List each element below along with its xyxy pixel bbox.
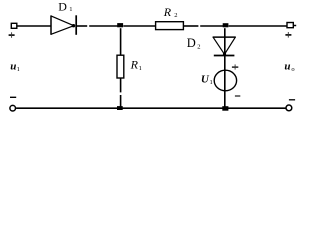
- voltage source U circle: [214, 70, 236, 91]
- minus mark output: [289, 99, 295, 101]
- svg-text:u: u: [10, 61, 16, 73]
- minus mark input: [10, 96, 16, 98]
- svg-text:o: o: [291, 66, 294, 73]
- wire: gap to node B: [200, 25, 226, 27]
- plus mark source: [232, 66, 238, 68]
- diode D1 tip dot: [72, 24, 75, 27]
- wire: gap to node A: [89, 25, 120, 27]
- wire: bottom rail: [16, 107, 286, 109]
- junction node on bottom rail below source: [222, 106, 228, 111]
- svg-text:1: 1: [139, 65, 142, 72]
- wire: top rail left terminal to D1: [17, 25, 51, 27]
- svg-text:1: 1: [210, 79, 213, 86]
- minus mark source: [235, 95, 240, 97]
- terminal input - (bottom-left circle): [10, 105, 16, 111]
- svg-text:1: 1: [69, 6, 72, 13]
- terminal output - (bottom-right circle): [286, 105, 292, 111]
- wire: node A down to R1: [120, 28, 122, 55]
- diode D2 tip dot: [223, 52, 226, 55]
- wire: R2 right to gap: [183, 25, 198, 27]
- wire: R1 to bottom rail: [120, 95, 122, 108]
- plus mark output: [285, 34, 291, 36]
- resistor R1: [117, 55, 124, 78]
- wire: node B to output terminal: [229, 25, 287, 27]
- wire: stub right of output terminal: [293, 25, 296, 27]
- diode D1 cathode bar: [75, 15, 77, 35]
- svg-text:R: R: [130, 57, 139, 71]
- wire: R1 bottom segment: [120, 78, 122, 92]
- junction node B: [223, 23, 229, 27]
- terminal input + (top-left square): [11, 23, 16, 28]
- junction node A: [117, 23, 123, 27]
- svg-text:R: R: [163, 5, 172, 19]
- svg-text:2: 2: [197, 43, 200, 50]
- diode D2 cathode bar: [214, 55, 235, 57]
- wire: node B down through D2 and source U to bottom rail: [224, 28, 226, 108]
- svg-text:2: 2: [174, 12, 177, 19]
- svg-text:D: D: [58, 0, 67, 13]
- diode D1 triangle: [50, 15, 52, 34]
- svg-text:1: 1: [17, 66, 20, 73]
- wire: node A to R2: [123, 25, 155, 27]
- diode D2 triangle: [213, 36, 236, 38]
- plus mark input: [9, 34, 15, 36]
- svg-text:D: D: [187, 36, 196, 50]
- svg-text:u: u: [284, 61, 290, 73]
- terminal output + (top-right square): [287, 23, 293, 28]
- resistor R2: [156, 22, 184, 30]
- junction node on bottom rail below R1: [117, 106, 123, 110]
- wire: D1 cathode to gap: [76, 25, 87, 27]
